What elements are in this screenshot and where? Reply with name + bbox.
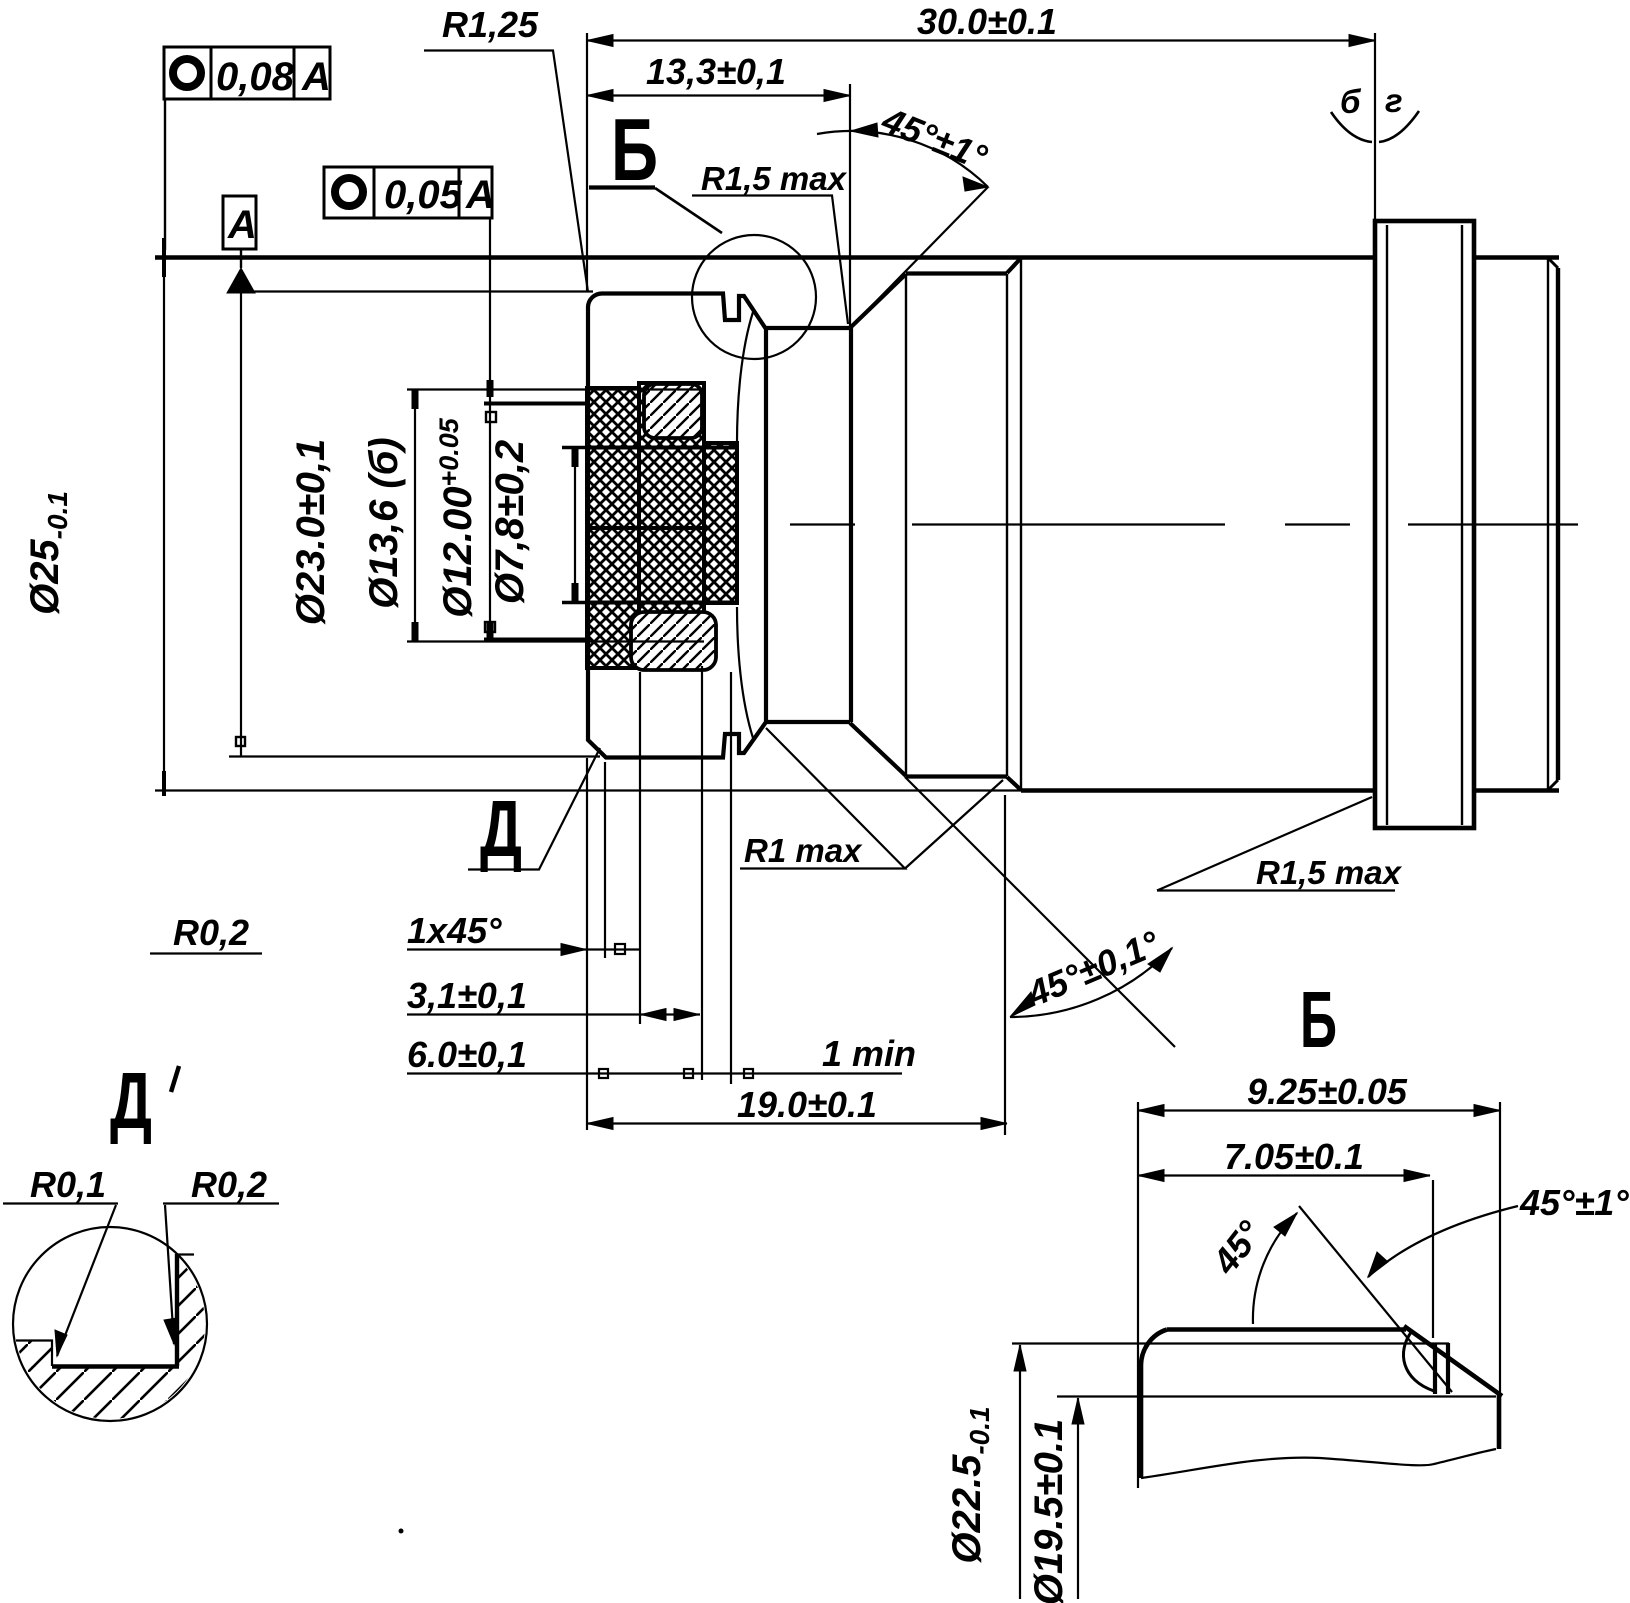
R1 max leader xyxy=(740,728,1003,869)
dim O12 xyxy=(489,379,491,640)
seal block B crosshatched xyxy=(639,383,704,662)
19.0 xyxy=(587,1122,1007,1124)
svg-text:45°±1°: 45°±1° xyxy=(1519,1182,1629,1223)
svg-text:1 min: 1 min xyxy=(822,1033,916,1074)
svg-text:19.0±0.1: 19.0±0.1 xyxy=(737,1084,877,1125)
stray dot xyxy=(399,1529,404,1534)
shoulder ring xyxy=(766,326,851,330)
svg-text:13,3±0,1: 13,3±0,1 xyxy=(646,51,786,92)
R0,2 leader xyxy=(163,1204,279,1345)
svg-text:Д: Д xyxy=(110,1056,152,1145)
R1,5 max leader top xyxy=(692,196,848,325)
seal block A crosshatched xyxy=(587,388,639,668)
apostrophe tick of D detail title xyxy=(171,1066,179,1092)
45 deg dim xyxy=(1299,1206,1452,1392)
svg-text:г: г xyxy=(1385,82,1403,119)
svg-text:R1,5 max: R1,5 max xyxy=(701,160,848,197)
svg-text:R0,2: R0,2 xyxy=(173,912,249,953)
45+-1 leader xyxy=(1368,1206,1518,1277)
45 deg top dim xyxy=(852,187,988,326)
3,1 xyxy=(407,1013,700,1015)
groove fillet curves (bore end) xyxy=(737,312,753,443)
chamfer 45 top xyxy=(851,274,906,327)
svg-text:1x45°: 1x45° xyxy=(407,910,502,951)
R1,25 leader xyxy=(424,51,588,293)
D label leader xyxy=(468,748,600,870)
R0,2 underline xyxy=(150,952,262,954)
1x45 xyxy=(407,948,640,950)
chamfer 45 bottom xyxy=(850,723,906,776)
svg-text:R1,5 max: R1,5 max xyxy=(1256,854,1403,891)
DETAIL B (bottom right) xyxy=(1012,1102,1518,1599)
svg-text:Ø19.5±0.1: Ø19.5±0.1 xyxy=(1027,1419,1071,1603)
detail circle B xyxy=(692,235,816,359)
svg-text:Д: Д xyxy=(480,784,522,873)
svg-text:б: б xyxy=(1340,83,1362,120)
svg-text:R0,2: R0,2 xyxy=(191,1164,267,1205)
svg-text:A: A xyxy=(301,55,331,99)
dim O22.5 xyxy=(1019,1345,1021,1599)
dim 30.0 line xyxy=(587,39,1375,41)
tolerance frame 0,08 A xyxy=(164,47,330,99)
cone section xyxy=(906,271,1007,275)
svg-text:6.0±0,1: 6.0±0,1 xyxy=(407,1034,527,1075)
chamfer to O25 xyxy=(1007,258,1021,273)
dim O7.8 xyxy=(574,447,576,603)
body left section outline xyxy=(588,294,766,758)
svg-text:3,1±0,1: 3,1±0,1 xyxy=(407,975,527,1016)
6.0 / 1 min xyxy=(407,1072,902,1074)
centerline xyxy=(790,523,1578,525)
svg-text:30.0±0.1: 30.0±0.1 xyxy=(917,1,1057,42)
tolerance frame 0,05 A xyxy=(324,167,492,218)
svg-text:9.25±0.05: 9.25±0.05 xyxy=(1247,1071,1408,1112)
svg-text:Б: Б xyxy=(611,100,658,199)
outline xyxy=(1167,1327,1406,1332)
svg-text:A: A xyxy=(227,203,257,247)
svg-text:R1 max: R1 max xyxy=(744,832,863,869)
seal lip lines xyxy=(587,446,737,450)
dim 9.25 xyxy=(1138,1109,1500,1111)
svg-text:7.05±0.1: 7.05±0.1 xyxy=(1224,1136,1364,1177)
washer bottom rounded xyxy=(631,612,716,670)
datum A xyxy=(223,196,256,249)
DETAIL D (bottom left) xyxy=(3,1204,279,1427)
R0,1 leader xyxy=(3,1204,118,1357)
45+-0,1 dim xyxy=(905,777,1175,1047)
right cylinder xyxy=(1556,268,1560,780)
svg-text:Ø7,8±0,2: Ø7,8±0,2 xyxy=(488,440,532,604)
flange xyxy=(1375,221,1474,828)
top silhouette line O25 xyxy=(155,255,1374,259)
svg-text:R1,25: R1,25 xyxy=(442,4,539,45)
seal block C crosshatched xyxy=(704,443,737,603)
svg-text:Б: Б xyxy=(1300,975,1337,1064)
dim 7.05 xyxy=(1138,1174,1430,1176)
R1,5 max leader right xyxy=(1157,797,1395,891)
svg-text:A: A xyxy=(465,173,495,217)
svg-text:0,08: 0,08 xyxy=(216,55,295,99)
svg-text:Ø23.0±0,1: Ø23.0±0,1 xyxy=(289,439,333,626)
bottom silhouette line O25 xyxy=(155,789,1021,791)
dim O23 xyxy=(240,293,242,756)
svg-text:R0,1: R0,1 xyxy=(30,1164,106,1205)
svg-text:Ø13,6 (б): Ø13,6 (б) xyxy=(362,437,406,608)
dim O25 xyxy=(163,257,165,791)
B view shelf and leader xyxy=(589,185,655,189)
washer top rounded xyxy=(644,384,702,438)
b/g view arrows xyxy=(1331,112,1372,142)
dim 13.3 line xyxy=(587,94,850,96)
svg-text:0,05: 0,05 xyxy=(384,173,463,217)
dim O13.6 xyxy=(414,389,416,641)
dim O19.5 xyxy=(1077,1398,1079,1599)
